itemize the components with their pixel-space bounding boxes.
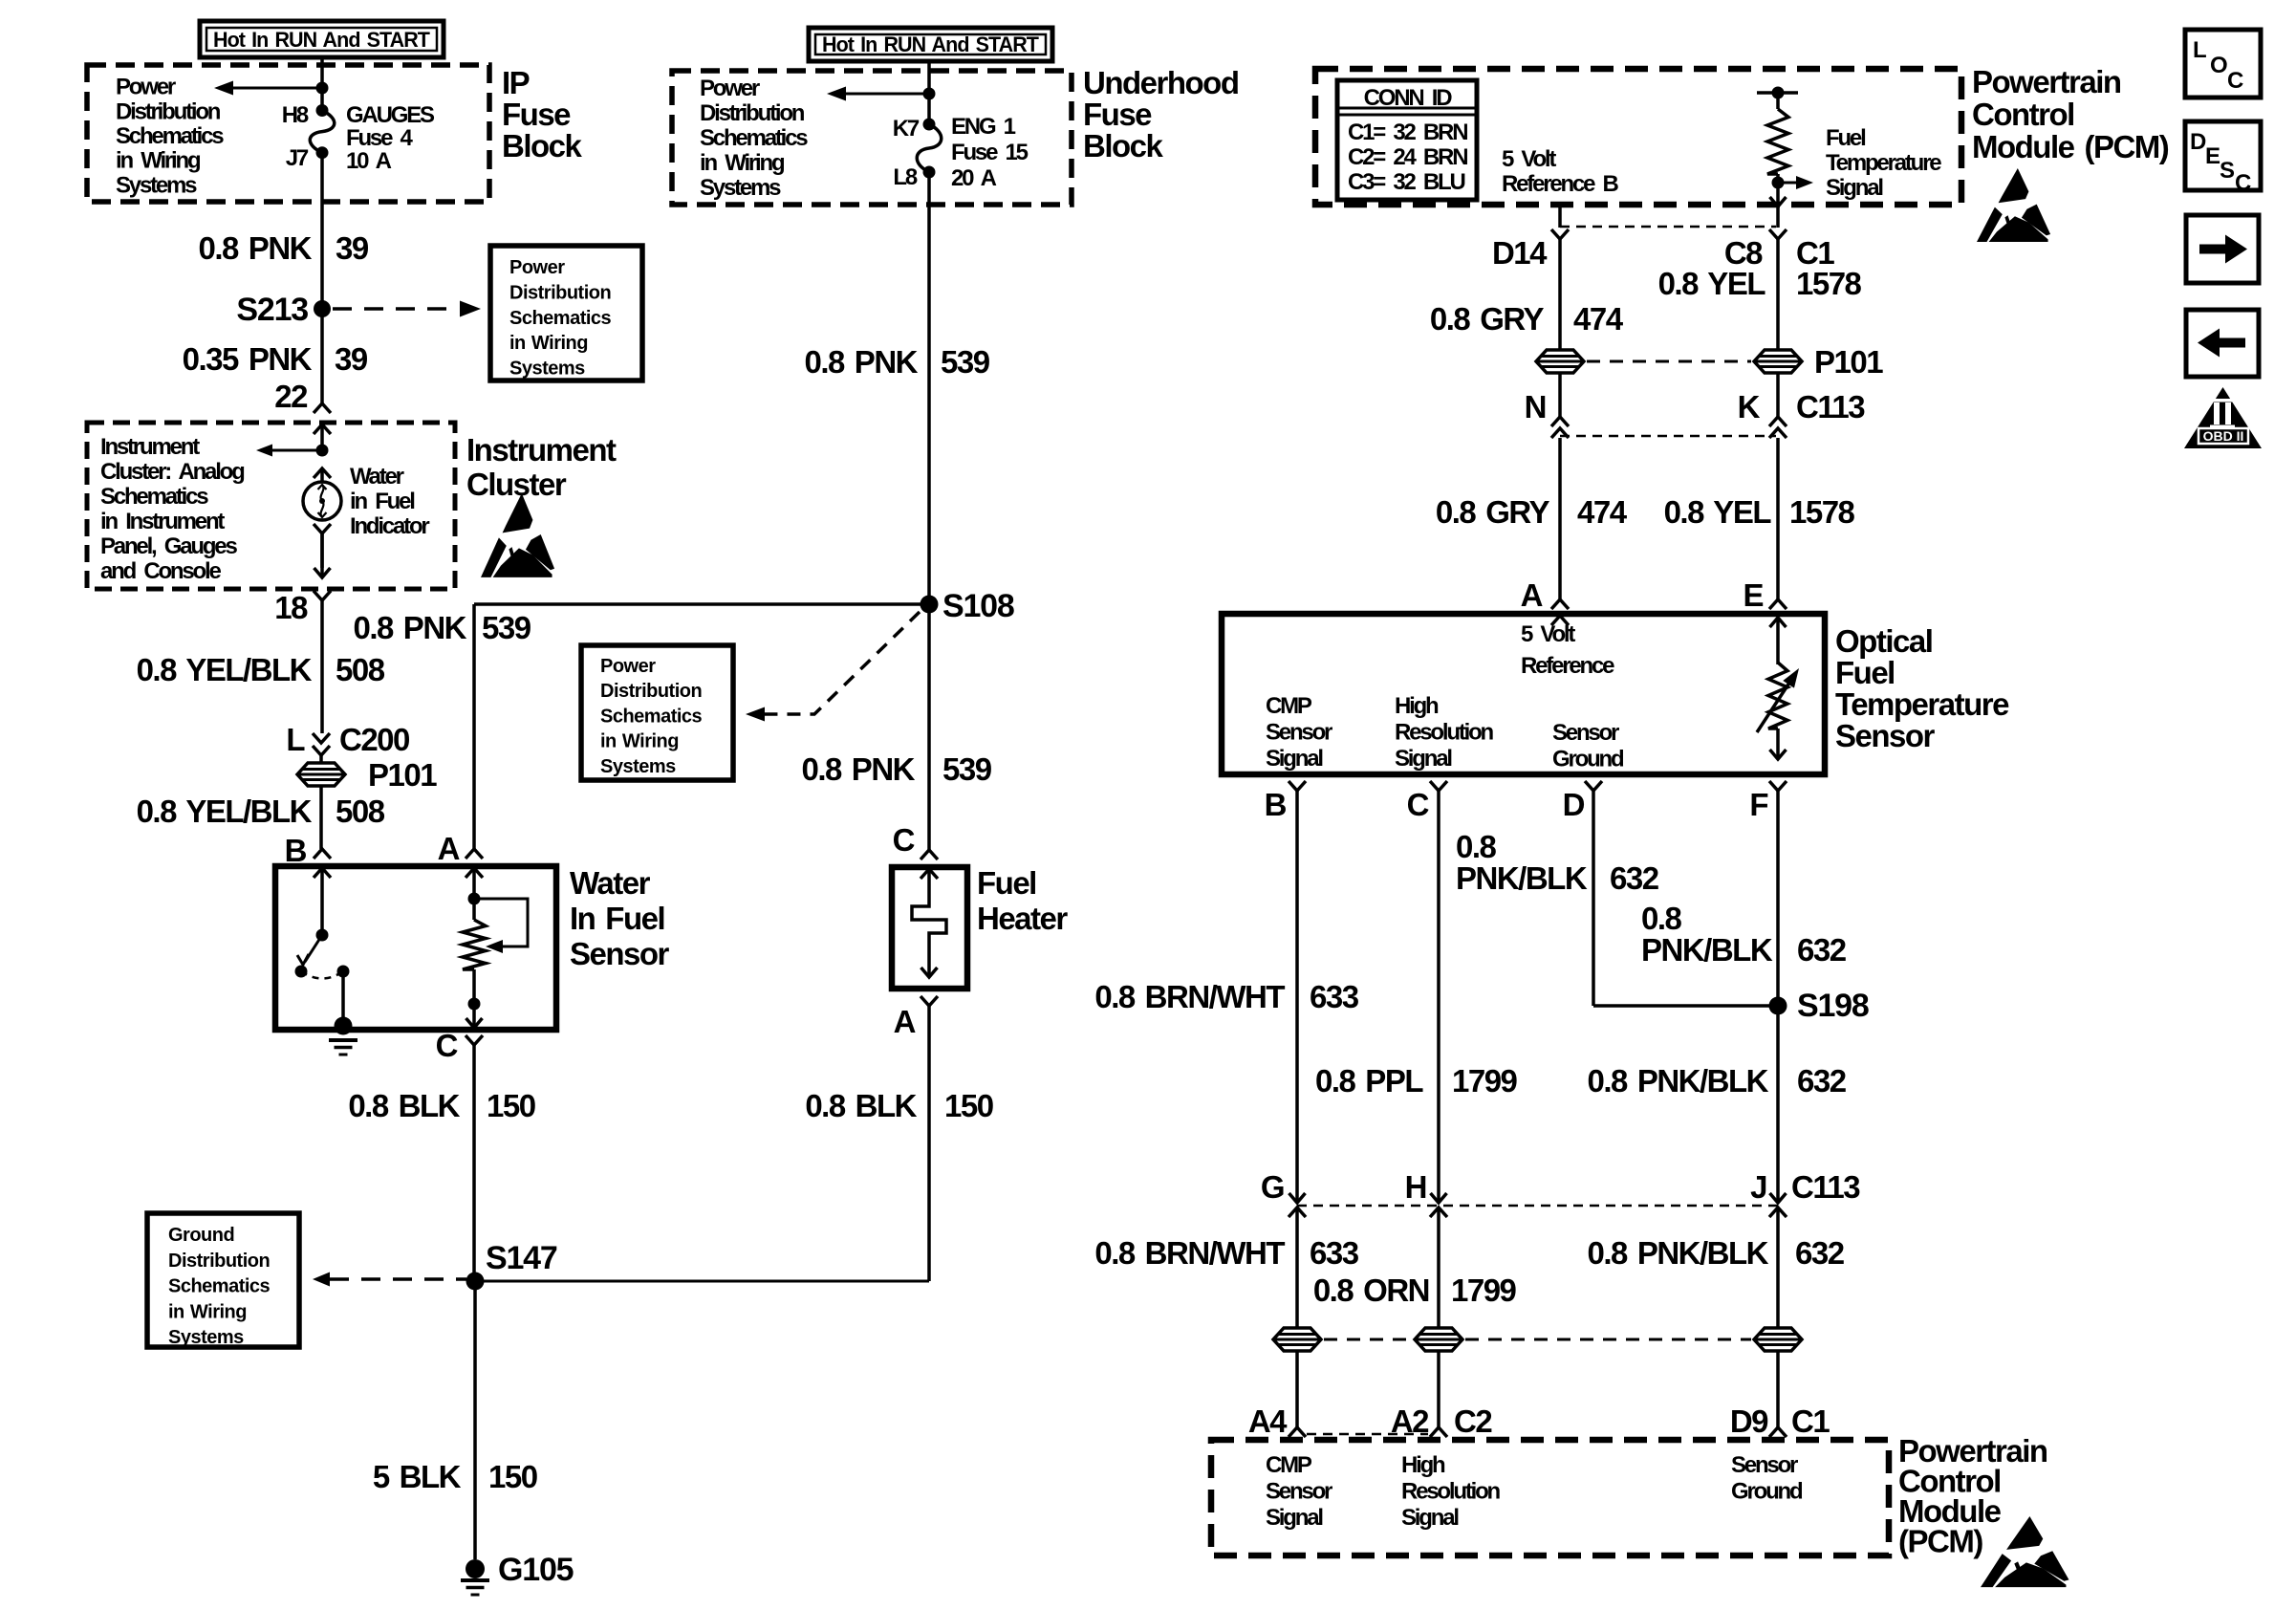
water sensor case ground — [335, 1017, 353, 1035]
fuel temperature signal resistor (PCM) — [1757, 91, 1798, 95]
pin F of optical sensor — [1769, 781, 1787, 791]
svg-text:150: 150 — [944, 1088, 993, 1123]
svg-text:Cluster: Analog: Cluster: Analog — [100, 459, 245, 485]
svg-text:508: 508 — [336, 652, 385, 687]
svg-text:0.8: 0.8 — [1456, 829, 1497, 864]
water in fuel indicator gauge — [314, 468, 331, 478]
legend right arrow box — [2186, 215, 2259, 283]
PCM pin A4 — [1289, 1427, 1306, 1437]
svg-text:B: B — [285, 833, 307, 868]
svg-text:539: 539 — [482, 610, 531, 645]
Instrument Cluster dashed outline — [87, 423, 455, 589]
splice S108 — [921, 596, 939, 614]
svg-text:0.8 ORN: 0.8 ORN — [1313, 1273, 1429, 1308]
svg-text:39: 39 — [335, 341, 368, 377]
wire ckt 1578 lower — [1776, 438, 1780, 599]
pin C of fuel heater — [921, 850, 938, 859]
svg-text:0.8 YEL: 0.8 YEL — [1658, 266, 1766, 301]
svg-text:632: 632 — [1795, 1235, 1845, 1271]
svg-text:in Wiring: in Wiring — [509, 333, 588, 354]
connector chevron above instrument cluster — [314, 403, 331, 413]
svg-text:Distribution: Distribution — [116, 98, 221, 124]
dashed reference arrow from S213 — [333, 307, 457, 311]
wire ckt 632 lower — [1776, 1207, 1780, 1328]
wire high resolution signal (ckt 1799) — [1437, 791, 1440, 1203]
wire from S108 branch down to pin A — [472, 604, 476, 849]
svg-text:C2= 24 BRN: C2= 24 BRN — [1348, 144, 1467, 170]
svg-text:0.8 BRN/WHT: 0.8 BRN/WHT — [1094, 1235, 1285, 1271]
svg-text:Signal: Signal — [1395, 746, 1451, 772]
svg-text:IP: IP — [502, 65, 530, 100]
svg-text:S108: S108 — [942, 588, 1014, 624]
svg-text:0.8 PNK/BLK: 0.8 PNK/BLK — [1587, 1063, 1768, 1099]
svg-text:in Wiring: in Wiring — [700, 150, 785, 176]
wire 5 BLK 150 to G105 — [473, 1281, 477, 1559]
svg-text:632: 632 — [1797, 1063, 1847, 1099]
svg-text:Instrument: Instrument — [100, 434, 200, 460]
svg-text:and Console: and Console — [100, 558, 221, 584]
svg-text:1578: 1578 — [1796, 266, 1862, 301]
svg-text:539: 539 — [942, 751, 992, 787]
wire ckt 150 from sensor — [472, 1045, 476, 1281]
svg-text:L: L — [2193, 37, 2206, 63]
grommet P101 (C8 wire) — [1754, 350, 1802, 373]
svg-text:C3= 32 BLU: C3= 32 BLU — [1348, 169, 1465, 195]
svg-text:Systems: Systems — [600, 756, 676, 777]
svg-text:Water: Water — [350, 464, 404, 490]
svg-text:0.8 GRY: 0.8 GRY — [1430, 301, 1545, 337]
wire ckt 539 down to S108 — [927, 172, 931, 604]
svg-text:C200: C200 — [339, 722, 409, 757]
power feed label box: Hot In RUN And START (IP) — [200, 21, 444, 57]
svg-text:C2: C2 — [1454, 1403, 1492, 1439]
svg-text:High: High — [1401, 1452, 1445, 1478]
water sensor sense resistor — [466, 868, 483, 878]
ESD symbol (instrument cluster) — [481, 493, 554, 577]
svg-text:A: A — [438, 831, 460, 866]
svg-text:Hot In RUN And START: Hot In RUN And START — [822, 33, 1039, 56]
svg-text:in Wiring: in Wiring — [600, 731, 679, 752]
svg-text:5 Volt: 5 Volt — [1502, 146, 1556, 172]
svg-text:1578: 1578 — [1789, 494, 1855, 530]
pin B of optical sensor — [1289, 781, 1306, 791]
wire ckt 1578 upper — [1776, 239, 1780, 350]
svg-text:G105: G105 — [498, 1552, 574, 1588]
fuse GAUGES Fuse 4 10A — [316, 104, 329, 117]
svg-text:0.8 PNK: 0.8 PNK — [804, 344, 918, 380]
wire sensor ground D branch (ckt 632) — [1592, 791, 1595, 1006]
svg-text:K: K — [1738, 389, 1761, 424]
svg-text:in Instrument: in Instrument — [100, 509, 225, 534]
PCM pin A2/C2 — [1430, 1427, 1447, 1437]
svg-text:0.8 GRY: 0.8 GRY — [1436, 494, 1550, 530]
Underhood Fuse Block dashed outline — [672, 71, 1072, 205]
svg-text:Power: Power — [509, 257, 565, 278]
svg-text:in Wiring: in Wiring — [168, 1301, 247, 1322]
svg-text:CMP: CMP — [1266, 693, 1312, 719]
ESD symbol (PCM bottom) — [1981, 1516, 2069, 1587]
svg-text:0.8 PNK/BLK: 0.8 PNK/BLK — [1587, 1235, 1768, 1271]
svg-text:Signal: Signal — [1266, 746, 1322, 772]
splice S147 — [466, 1273, 485, 1291]
svg-text:in Fuel: in Fuel — [350, 489, 414, 514]
wire ckt 39 to 22 — [320, 309, 324, 403]
svg-text:Schematics: Schematics — [100, 484, 208, 510]
svg-text:J7: J7 — [286, 145, 309, 171]
wire ckt 474 lower — [1558, 438, 1562, 599]
fuse ENG 1 Fuse 15 20A — [923, 119, 936, 131]
CONN ID table — [1337, 80, 1477, 200]
branch wire S108 to pin A — [474, 602, 929, 606]
svg-text:5 BLK: 5 BLK — [373, 1459, 462, 1494]
svg-text:Signal: Signal — [1401, 1505, 1458, 1531]
pin A of water in fuel sensor — [466, 849, 483, 859]
svg-text:10 A: 10 A — [346, 148, 392, 174]
IP Fuse Block dashed outline — [87, 65, 489, 202]
svg-text:150: 150 — [487, 1088, 535, 1123]
Fuel Heater box — [892, 867, 967, 989]
svg-text:150: 150 — [488, 1459, 537, 1494]
pin C of water in fuel sensor — [466, 1035, 483, 1045]
grommet (ckt 632) — [1754, 1328, 1802, 1351]
svg-text:Distribution: Distribution — [509, 282, 611, 303]
arrow to power distribution (underhood) — [834, 93, 929, 96]
svg-text:Cluster: Cluster — [466, 467, 567, 502]
cluster feed pin arrow — [314, 424, 331, 434]
svg-text:D14: D14 — [1492, 235, 1548, 271]
svg-text:F: F — [1749, 787, 1767, 822]
ground wire from fuel heater to S147 — [475, 1280, 929, 1283]
ESD symbol (PCM top) — [1977, 168, 2050, 242]
svg-text:(PCM): (PCM) — [1898, 1524, 1982, 1559]
power distribution reference box (S213) — [490, 246, 642, 381]
wires into PCM bottom — [1295, 1351, 1299, 1427]
svg-text:Schematics: Schematics — [509, 308, 612, 329]
wire ckt 1799 lower — [1437, 1207, 1440, 1328]
svg-text:D: D — [1563, 787, 1585, 822]
svg-text:Signal: Signal — [1266, 1505, 1322, 1531]
svg-text:E: E — [1743, 577, 1763, 613]
svg-text:Schematics: Schematics — [600, 706, 703, 727]
PCM pin D9/C1 — [1769, 1427, 1787, 1437]
svg-text:Water: Water — [570, 865, 651, 901]
svg-text:508: 508 — [336, 794, 385, 829]
svg-text:L8: L8 — [893, 164, 917, 190]
svg-text:N: N — [1525, 389, 1546, 424]
svg-text:In Fuel: In Fuel — [570, 901, 664, 936]
svg-text:22: 22 — [274, 379, 308, 414]
ground distribution reference box — [147, 1213, 299, 1347]
svg-text:C: C — [893, 822, 915, 858]
svg-text:CMP: CMP — [1266, 1452, 1312, 1478]
svg-text:Distribution: Distribution — [700, 100, 805, 126]
svg-text:D: D — [2190, 129, 2206, 155]
svg-text:Fuel: Fuel — [977, 865, 1036, 901]
svg-text:C1= 32 BRN: C1= 32 BRN — [1348, 120, 1467, 145]
svg-text:Block: Block — [502, 128, 583, 163]
svg-text:Systems: Systems — [700, 175, 781, 201]
svg-text:S198: S198 — [1797, 988, 1869, 1024]
splice S198 — [1769, 997, 1787, 1015]
wire ckt 508 lower — [319, 787, 323, 849]
grommet (ckt 633) — [1273, 1328, 1321, 1351]
wire ckt 39 below fuse block — [320, 153, 324, 309]
svg-text:0.8 BRN/WHT: 0.8 BRN/WHT — [1094, 979, 1285, 1014]
wire F / sensor ground (ckt 632) — [1776, 791, 1780, 1203]
svg-text:High: High — [1395, 693, 1439, 719]
svg-text:Sensor: Sensor — [1552, 720, 1619, 746]
svg-text:C: C — [2227, 68, 2243, 94]
in-line connector C113 (upper) — [1558, 373, 1562, 417]
svg-text:Resolution: Resolution — [1401, 1479, 1501, 1505]
pin D of optical sensor — [1585, 781, 1602, 791]
svg-text:PNK/BLK: PNK/BLK — [1456, 860, 1588, 896]
svg-text:Hot In RUN And START: Hot In RUN And START — [213, 28, 430, 52]
svg-text:D9: D9 — [1730, 1403, 1768, 1439]
svg-text:Temperature: Temperature — [1835, 686, 2009, 722]
wire ckt 474 upper — [1558, 239, 1562, 350]
wire from Hot feed into underhood block — [927, 61, 931, 124]
svg-text:1799: 1799 — [1452, 1063, 1518, 1099]
power feed label box: Hot In RUN And START (underhood) — [809, 28, 1052, 61]
svg-text:Schematics: Schematics — [116, 123, 224, 149]
svg-text:0.8 BLK: 0.8 BLK — [805, 1088, 917, 1123]
svg-text:632: 632 — [1610, 860, 1659, 896]
pin E of optical sensor — [1769, 599, 1787, 609]
svg-text:Sensor: Sensor — [1835, 718, 1936, 753]
svg-text:Reference B: Reference B — [1502, 171, 1619, 197]
svg-text:OBD II: OBD II — [2203, 428, 2244, 444]
svg-text:Fuse: Fuse — [502, 97, 571, 132]
svg-text:C113: C113 — [1796, 389, 1865, 424]
svg-text:in Wiring: in Wiring — [116, 148, 201, 174]
svg-text:Fuse 15: Fuse 15 — [951, 140, 1029, 165]
svg-text:Sensor: Sensor — [1731, 1452, 1798, 1478]
arrow to power distribution (IP) — [222, 87, 322, 90]
svg-text:Heater: Heater — [977, 901, 1068, 936]
svg-text:GAUGES: GAUGES — [346, 102, 435, 128]
svg-text:Ground: Ground — [168, 1225, 234, 1246]
svg-text:Underhood: Underhood — [1083, 65, 1238, 100]
svg-text:474: 474 — [1573, 301, 1624, 337]
svg-text:G: G — [1261, 1169, 1284, 1205]
pin A of optical sensor — [1551, 599, 1569, 609]
svg-text:C: C — [2235, 170, 2251, 196]
svg-text:Sensor: Sensor — [1266, 720, 1332, 746]
svg-text:Fuse 4: Fuse 4 — [346, 125, 413, 151]
ground G105 — [466, 1559, 485, 1578]
svg-text:0.35 PNK: 0.35 PNK — [183, 341, 313, 377]
svg-text:Sensor: Sensor — [1266, 1479, 1332, 1505]
svg-text:PNK/BLK: PNK/BLK — [1641, 932, 1773, 968]
connector chevron below cluster / wire 18 — [314, 591, 331, 600]
Water In Fuel Sensor box — [275, 866, 556, 1030]
svg-text:Schematics: Schematics — [700, 125, 808, 151]
svg-text:B: B — [1265, 787, 1287, 822]
svg-text:Distribution: Distribution — [168, 1251, 270, 1272]
svg-text:K7: K7 — [893, 116, 920, 141]
wire ckt 150 from fuel heater — [927, 1006, 931, 1281]
legend left arrow box — [2186, 310, 2259, 377]
svg-text:P101: P101 — [1814, 344, 1883, 380]
svg-text:H8: H8 — [282, 102, 309, 128]
PCM dashed outline (bottom) — [1211, 1440, 1889, 1556]
connector C200 — [313, 733, 330, 743]
wire CMP sensor signal (ckt 633) — [1295, 791, 1299, 1203]
svg-text:S147: S147 — [486, 1240, 557, 1276]
grommet P101 (left) — [297, 763, 345, 786]
wire from Hot feed into IP fuse block — [320, 57, 324, 110]
connector C1 interface (top) — [1558, 205, 1562, 228]
grommet (ckt 1799) — [1415, 1328, 1462, 1351]
grommet P101 (D14 wire) — [1536, 350, 1584, 373]
svg-text:Systems: Systems — [116, 172, 197, 198]
svg-text:18: 18 — [274, 590, 308, 625]
pin B of water in fuel sensor — [314, 849, 331, 859]
svg-text:A4: A4 — [1248, 1403, 1288, 1439]
svg-text:Signal: Signal — [1826, 175, 1882, 201]
PCM dashed outline (top) — [1315, 69, 1961, 205]
splice S213 — [314, 300, 331, 317]
dashed reference arrow from S108 — [755, 612, 920, 714]
svg-text:0.8 PPL: 0.8 PPL — [1315, 1063, 1423, 1099]
svg-text:632: 632 — [1797, 932, 1847, 968]
svg-text:C113: C113 — [1791, 1169, 1860, 1205]
svg-text:S213: S213 — [236, 292, 308, 328]
svg-text:Optical: Optical — [1835, 623, 1932, 659]
svg-text:C1: C1 — [1791, 1403, 1830, 1439]
svg-text:C: C — [436, 1028, 458, 1063]
fuel heater element — [921, 869, 938, 879]
svg-text:Block: Block — [1083, 128, 1164, 163]
svg-text:S: S — [2220, 158, 2235, 184]
svg-text:Power: Power — [600, 656, 656, 677]
svg-text:633: 633 — [1310, 1235, 1359, 1271]
dashed tie between grommets — [1587, 360, 1751, 363]
svg-text:P101: P101 — [368, 757, 437, 793]
svg-text:Module (PCM): Module (PCM) — [1972, 129, 2169, 164]
svg-text:Systems: Systems — [168, 1327, 244, 1348]
svg-text:Temperature: Temperature — [1826, 150, 1941, 176]
svg-text:Powertrain: Powertrain — [1972, 64, 2121, 99]
svg-text:Ground: Ground — [1552, 747, 1624, 772]
svg-text:0.8 PNK: 0.8 PNK — [801, 751, 915, 787]
dashed tie between PCM pins — [1307, 1433, 1428, 1436]
svg-text:Instrument: Instrument — [466, 432, 617, 468]
svg-text:Fuel: Fuel — [1826, 125, 1865, 151]
svg-text:Systems: Systems — [509, 359, 585, 380]
in-line connector C113 (lower) — [1289, 1193, 1306, 1203]
svg-text:0.8 PNK: 0.8 PNK — [198, 230, 312, 266]
optical sensor thermistor — [1551, 616, 1569, 625]
svg-text:0.8 YEL: 0.8 YEL — [1664, 494, 1772, 530]
svg-text:Sensor: Sensor — [570, 936, 670, 971]
svg-text:E: E — [2205, 143, 2220, 169]
svg-text:L: L — [286, 722, 305, 757]
dashed tie between lower grommets — [1324, 1338, 1412, 1341]
svg-text:0.8: 0.8 — [1641, 901, 1682, 936]
svg-text:Fuel: Fuel — [1835, 655, 1895, 690]
power distribution reference box (S108) — [581, 645, 733, 780]
svg-text:0.8 YEL/BLK: 0.8 YEL/BLK — [137, 794, 313, 829]
svg-text:C: C — [1407, 787, 1429, 822]
svg-text:39: 39 — [336, 230, 369, 266]
svg-text:Power: Power — [116, 75, 176, 100]
legend DESC box — [2185, 121, 2261, 190]
svg-text:20 A: 20 A — [951, 165, 997, 191]
svg-text:0.8 YEL/BLK: 0.8 YEL/BLK — [137, 652, 313, 687]
arrow to cluster schematics — [316, 445, 329, 457]
svg-text:H: H — [1405, 1169, 1426, 1205]
svg-text:Indicator: Indicator — [350, 513, 429, 539]
svg-text:474: 474 — [1577, 494, 1628, 530]
svg-text:0.8 BLK: 0.8 BLK — [348, 1088, 460, 1123]
svg-text:Panel, Gauges: Panel, Gauges — [100, 533, 237, 559]
svg-text:J: J — [1750, 1169, 1766, 1205]
svg-text:Distribution: Distribution — [600, 681, 702, 702]
pin C of optical sensor — [1430, 781, 1447, 791]
svg-text:1799: 1799 — [1451, 1273, 1517, 1308]
svg-text:633: 633 — [1310, 979, 1359, 1014]
svg-text:Fuse: Fuse — [1083, 97, 1152, 132]
svg-text:O: O — [2210, 53, 2227, 78]
wire ckt 633 lower — [1295, 1207, 1299, 1328]
svg-text:Ground: Ground — [1731, 1479, 1803, 1505]
water sensor switch — [314, 868, 331, 878]
svg-text:Reference: Reference — [1521, 653, 1614, 679]
svg-text:ENG 1: ENG 1 — [951, 114, 1016, 140]
svg-text:A: A — [1521, 577, 1543, 613]
wire ckt 539 to fuel heater — [927, 604, 931, 850]
svg-text:Control: Control — [1972, 97, 2074, 132]
svg-text:A: A — [894, 1004, 916, 1039]
pin A of fuel heater — [921, 996, 938, 1006]
dashed reference arrow to ground box — [313, 1273, 330, 1287]
legend LOC box — [2185, 30, 2261, 98]
svg-text:CONN ID: CONN ID — [1364, 85, 1453, 111]
svg-text:Power: Power — [700, 76, 760, 101]
svg-text:Schematics: Schematics — [168, 1276, 271, 1297]
legend OBD II symbol — [2184, 387, 2262, 448]
svg-text:0.8 PNK: 0.8 PNK — [353, 610, 466, 645]
svg-text:Resolution: Resolution — [1395, 720, 1494, 746]
Optical Fuel Temperature Sensor box — [1222, 614, 1825, 774]
svg-text:539: 539 — [941, 344, 990, 380]
